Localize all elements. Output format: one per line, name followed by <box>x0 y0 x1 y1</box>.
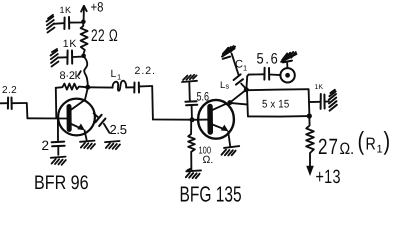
svg-text:22 Ω: 22 Ω <box>91 26 118 45</box>
svg-text:BFG 135: BFG 135 <box>180 183 242 207</box>
svg-text:(: ( <box>358 128 365 156</box>
svg-text:5.6: 5.6 <box>257 50 280 67</box>
svg-text:L: L <box>111 68 117 80</box>
svg-text:27: 27 <box>318 135 339 160</box>
svg-text:1K: 1K <box>315 84 324 91</box>
svg-text:BFR 96: BFR 96 <box>34 171 89 193</box>
svg-text:): ) <box>384 128 391 156</box>
svg-text:2.2.: 2.2. <box>135 65 157 77</box>
svg-text:R: R <box>366 135 376 155</box>
svg-text:2.5: 2.5 <box>110 122 127 137</box>
svg-text:1K: 1K <box>60 5 72 15</box>
svg-text:1: 1 <box>377 144 383 156</box>
svg-text:1: 1 <box>243 64 247 73</box>
svg-text:5 x 15: 5 x 15 <box>262 99 289 111</box>
svg-text:Ω.: Ω. <box>203 154 214 166</box>
svg-text:s: s <box>226 82 230 91</box>
svg-text:5.6: 5.6 <box>197 90 210 103</box>
svg-text:L: L <box>220 80 225 91</box>
svg-text:1: 1 <box>117 73 121 82</box>
svg-text:2.2: 2.2 <box>2 85 17 96</box>
svg-text:C: C <box>235 59 243 71</box>
svg-text:Ω.: Ω. <box>340 140 355 159</box>
svg-text:1K: 1K <box>63 38 77 50</box>
svg-text:2: 2 <box>42 138 50 153</box>
svg-text:8·2k: 8·2k <box>60 70 81 82</box>
svg-text:+13: +13 <box>316 167 341 187</box>
svg-text:+8: +8 <box>91 0 104 15</box>
